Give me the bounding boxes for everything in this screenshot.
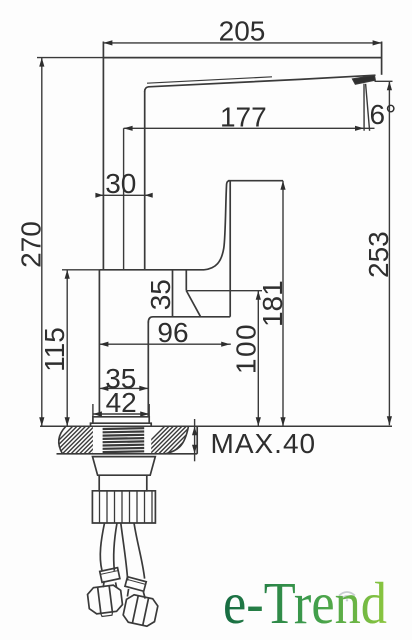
dimension 181 arrows xyxy=(280,181,285,427)
dimension MAX40 line xyxy=(194,419,196,461)
counter deck bottom line xyxy=(57,453,198,455)
counter deck top line xyxy=(40,425,392,427)
shank below washer xyxy=(99,475,147,491)
deck right end face xyxy=(196,426,198,454)
left hose ferrule xyxy=(100,568,120,583)
dimension 253 line xyxy=(375,81,393,425)
handle inner line xyxy=(229,182,231,317)
dimension 205 line xyxy=(103,42,381,44)
svg-text:42: 42 xyxy=(106,387,137,418)
left deck hatch block xyxy=(36,418,141,463)
dimension 35 lower arrows xyxy=(99,386,148,391)
collar band left edge xyxy=(172,270,174,317)
spout tip end face xyxy=(381,42,383,75)
svg-text:205: 205 xyxy=(219,16,266,47)
spout underside upper line xyxy=(147,77,272,83)
dimension 205 arrows xyxy=(103,40,381,45)
faucet top edge xyxy=(103,57,381,59)
dimension 96 line xyxy=(99,343,230,345)
svg-text:270: 270 xyxy=(16,221,47,268)
dimension 177 line xyxy=(124,127,375,129)
svg-text:MAX.40: MAX.40 xyxy=(211,428,317,459)
logo wifi icon xyxy=(339,592,355,602)
right hose neck xyxy=(127,589,128,597)
dimension 35 lower line xyxy=(99,387,148,389)
spout front edge xyxy=(144,91,146,270)
rubber washer cone xyxy=(93,457,156,476)
threaded shank section xyxy=(103,428,145,452)
svg-text:100: 100 xyxy=(231,323,262,374)
left hose nut xyxy=(87,584,124,618)
mounting nut ribbed xyxy=(92,491,155,523)
dimension 30 line xyxy=(96,194,151,196)
angle 6 deg extension line xyxy=(363,84,365,131)
svg-text:181: 181 xyxy=(257,280,288,327)
dimension MAX40 arrows xyxy=(192,426,197,454)
right hose nut xyxy=(122,593,159,627)
base plate top xyxy=(93,417,149,423)
dimension 100 arrows xyxy=(256,291,261,427)
right deck hatch block xyxy=(128,418,233,463)
svg-text:253: 253 xyxy=(363,231,394,278)
dimension 177 arrows xyxy=(124,126,364,131)
dimension 30 arrows xyxy=(95,193,152,198)
spout underside outline xyxy=(145,75,376,91)
dimension 270 arrows xyxy=(39,58,44,427)
svg-text:177: 177 xyxy=(220,102,267,133)
svg-text:35: 35 xyxy=(145,279,176,310)
handle outer left edge xyxy=(204,181,230,270)
svg-text:30: 30 xyxy=(105,168,136,199)
column left edge xyxy=(98,270,100,417)
collar band right edge xyxy=(185,270,187,291)
dimension 100 line xyxy=(187,291,262,427)
svg-text:6°: 6° xyxy=(370,99,397,130)
dimension 115 arrows xyxy=(65,270,70,426)
dimension 181 line xyxy=(282,181,284,427)
left supply hose xyxy=(100,523,104,570)
aerator xyxy=(352,75,375,84)
svg-text:96: 96 xyxy=(157,317,188,348)
column right edge xyxy=(147,322,149,417)
body centerline xyxy=(123,128,125,269)
dimension 115 line xyxy=(62,270,99,426)
base plate flange xyxy=(91,423,152,426)
dimension 253 arrows xyxy=(387,81,392,425)
dimension 96 arrows xyxy=(99,342,230,347)
right hose ferrule xyxy=(125,577,146,591)
angle 6 deg slant line xyxy=(366,84,370,131)
collar chamfer slant xyxy=(186,291,200,317)
right supply hose xyxy=(121,523,128,581)
handle top xyxy=(228,180,283,182)
left hose neck xyxy=(103,581,104,587)
dimension 42 line xyxy=(93,404,149,417)
logo e-Trend xyxy=(223,570,387,636)
housing top xyxy=(99,269,204,271)
svg-text:e-Trend: e-Trend xyxy=(223,570,387,636)
dimension 42 arrows xyxy=(93,411,149,416)
dimension 270 line xyxy=(37,58,103,427)
housing bottom shoulder xyxy=(148,317,230,323)
svg-text:115: 115 xyxy=(39,327,70,372)
faucet back edge xyxy=(102,42,104,270)
